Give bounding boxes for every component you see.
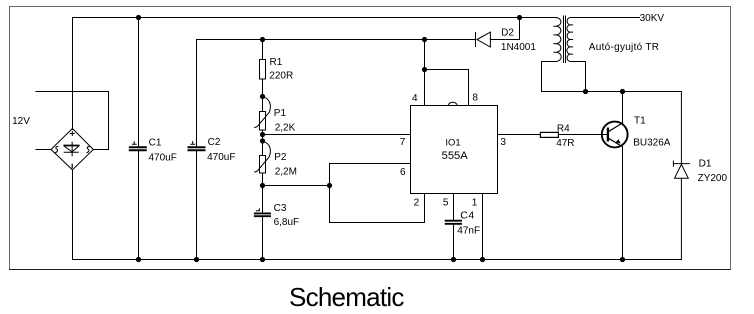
- node: junction R1 bottom P1 wiper: [260, 94, 265, 99]
- svg-text:1N4001: 1N4001: [501, 42, 536, 53]
- wire: bridge - down to ground rail: [72, 170, 74, 260]
- zener diode D1: [673, 161, 689, 178]
- wire: 30KV secondary output: [570, 17, 639, 19]
- wire: pin 3 to R4 to T1 base: [498, 134, 608, 136]
- svg-text:5: 5: [443, 198, 449, 209]
- node: junction R1 top rail2: [260, 37, 265, 42]
- trimmer P2 body: [260, 156, 266, 174]
- node: junction pin6 pin2 branch: [327, 183, 332, 188]
- node: junction P2 wiper: [260, 138, 265, 143]
- wire: pin 7 net from P1 bottom: [263, 134, 411, 136]
- IO1 notch: [448, 102, 457, 105]
- svg-text:C3: C3: [274, 203, 287, 214]
- wire: ground rail: [73, 259, 682, 261]
- svg-text:2,2M: 2,2M: [275, 167, 297, 178]
- svg-text:470uF: 470uF: [149, 152, 177, 163]
- transistor T1 circle: [602, 122, 628, 148]
- bridge + mark: [70, 132, 74, 136]
- capacitor C1 polarity mark: [132, 142, 136, 145]
- svg-text:3: 3: [500, 137, 506, 148]
- resistor R4 body: [540, 132, 558, 137]
- node: junction P1 bottom pin7: [260, 132, 265, 137]
- svg-text:P2: P2: [274, 152, 287, 163]
- svg-text:47nF: 47nF: [457, 226, 480, 237]
- wire: T1 emitter to ground: [622, 147, 624, 260]
- svg-text:D2: D2: [501, 27, 514, 38]
- svg-text:D1: D1: [699, 159, 712, 170]
- svg-text:2,2K: 2,2K: [275, 122, 296, 133]
- capacitor C4 plates: [446, 221, 461, 224]
- svg-text:1: 1: [472, 198, 478, 209]
- capacitor C2 plates: [189, 147, 205, 150]
- svg-text:6,8uF: 6,8uF: [274, 217, 300, 228]
- wire: 12V lower input terminal to bridge AC left: [36, 149, 51, 151]
- node: junction T1 emitter ground: [620, 257, 625, 262]
- svg-text:R4: R4: [557, 124, 570, 135]
- capacitor C3 plates: [255, 213, 270, 216]
- svg-text:8: 8: [472, 92, 478, 103]
- wire: R1 P1 P2 C3 chain: [262, 40, 264, 260]
- trimmer P2 wiper arm: [255, 141, 271, 172]
- node: junction pin1 ground: [480, 257, 485, 262]
- svg-text:P1: P1: [274, 108, 287, 119]
- bridge inner diode symbol: [64, 145, 78, 147]
- transformer TR primary winding: [554, 18, 561, 62]
- wire: C2 branch: [196, 40, 198, 260]
- capacitor C2 polarity mark: [191, 142, 195, 145]
- node: junction C3 ground: [260, 257, 265, 262]
- wire: V+ rail 2 from C2 to D2 cathode: [197, 39, 476, 41]
- wire: pin 1 to ground: [482, 194, 484, 260]
- svg-text:47R: 47R: [556, 138, 574, 149]
- node: junction C4 ground: [451, 257, 456, 262]
- transformer TR core: [564, 16, 566, 63]
- node: junction T1 collector: [620, 89, 625, 94]
- svg-text:2: 2: [414, 198, 420, 209]
- wire: D2 anode up to V+ rail: [490, 18, 519, 40]
- node: junction C2 ground: [194, 257, 199, 262]
- svg-text:ZY200: ZY200: [698, 173, 728, 184]
- svg-text:BU326A: BU326A: [633, 137, 671, 148]
- transistor T1 base bar: [607, 129, 609, 141]
- node: junction pins 4-8 rail2: [422, 37, 427, 42]
- bridge - mark: [71, 164, 73, 167]
- svg-text:6: 6: [400, 167, 406, 178]
- svg-text:470uF: 470uF: [207, 152, 235, 163]
- wire: pin 5 to C4 to ground: [453, 194, 455, 260]
- svg-text:T1: T1: [634, 116, 646, 127]
- wire: pins 4 and 8 supply net: [425, 40, 469, 106]
- node: junction pin4/pin8 split: [422, 67, 427, 72]
- svg-text:30KV: 30KV: [640, 13, 665, 24]
- svg-text:Schematic: Schematic: [289, 282, 404, 312]
- svg-text:555A: 555A: [442, 150, 469, 162]
- transformer TR secondary winding: [567, 18, 573, 62]
- svg-text:C2: C2: [208, 137, 221, 148]
- resistor R1 body: [260, 60, 266, 80]
- trimmer P1 body: [260, 112, 266, 131]
- wire: C1 branch: [138, 18, 140, 260]
- transistor T1 collector stroke: [609, 123, 623, 131]
- wire: 12V upper input terminal to bridge AC right: [36, 92, 109, 150]
- bridge rectifier B1 diamond: [51, 129, 93, 170]
- capacitor C3 polarity mark: [256, 209, 259, 211]
- svg-text:12V: 12V: [12, 116, 30, 127]
- wire: D1 anode to ground rail: [680, 178, 682, 259]
- bridge ~ mark left: [56, 147, 58, 153]
- svg-text:Autó-gyujtó TR: Autó-gyujtó TR: [589, 42, 659, 53]
- wire: pin 6 / pin 2 net from P2 bottom: [263, 164, 425, 223]
- svg-text:220R: 220R: [269, 71, 293, 82]
- svg-text:C4: C4: [460, 209, 475, 221]
- transistor T1 emitter stroke: [609, 138, 623, 146]
- svg-text:7: 7: [400, 137, 406, 148]
- transistor T1 emitter arrow: [616, 139, 621, 144]
- svg-text:4: 4: [412, 93, 418, 104]
- wire: V+ rail from bridge + to transformer primary top: [73, 18, 557, 130]
- node: junction C1 top: [136, 15, 141, 20]
- node: junction transformer secondary bottom: [583, 89, 588, 94]
- svg-text:IO1: IO1: [445, 138, 460, 149]
- trimmer P1 wiper arm: [255, 97, 271, 128]
- wire: transformer bottom net to T1 collector and D1: [542, 62, 682, 164]
- node: junction C1 ground: [136, 257, 141, 262]
- node: junction D2 bypass top: [517, 15, 522, 20]
- timer IC IO1 555 body: [411, 106, 498, 194]
- bridge ~ mark right: [87, 147, 89, 153]
- svg-text:C1: C1: [149, 137, 162, 148]
- svg-text:R1: R1: [270, 57, 283, 68]
- capacitor C1 plates: [130, 147, 146, 150]
- diode D2: [476, 32, 491, 47]
- node: junction P2 bottom C3 top: [260, 183, 265, 188]
